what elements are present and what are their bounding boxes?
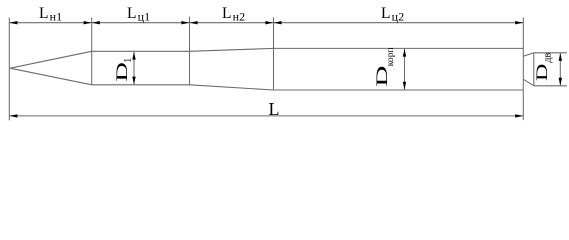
wire nozzle flare top	[523, 53, 534, 56]
wire nose cone top	[10, 51, 92, 68]
junction line cyl1/taper	[189, 17, 191, 86]
wire nozzle bottom	[534, 85, 567, 87]
svg-text:Lц1: Lц1	[127, 5, 150, 23]
wire cylinder1 top	[92, 50, 190, 52]
arrowheads Dkorp	[403, 49, 406, 57]
arrowhead bottom-left	[10, 114, 18, 117]
svg-text:1: 1	[123, 58, 134, 63]
svg-text:L: L	[269, 99, 280, 119]
wire main body top	[274, 47, 524, 49]
svg-text:корп: корп	[385, 47, 396, 66]
arrowheads at cyl1 end	[181, 21, 189, 24]
extension line left (node A)	[8, 18, 10, 121]
svg-text:D: D	[534, 64, 551, 82]
top dimension line	[9, 22, 523, 24]
dimension line D1	[133, 52, 135, 85]
extension line taper/main	[273, 18, 275, 91]
arrowheads D1	[132, 52, 135, 60]
wire taper top	[190, 48, 274, 51]
arrowhead top-right	[515, 21, 523, 24]
wire main body bottom	[274, 89, 524, 91]
svg-text:D: D	[373, 66, 391, 87]
dimension line Dkorp	[404, 49, 406, 90]
arrowheads at cone base	[84, 21, 92, 24]
bottom dimension line	[9, 115, 523, 117]
arrowhead top-left	[10, 21, 18, 24]
svg-text:дв: дв	[542, 53, 553, 63]
wire nose cone bottom	[10, 68, 92, 85]
wire cylinder1 bottom	[92, 84, 190, 86]
arrowheads at taper end	[265, 21, 273, 24]
svg-text:Lн2: Lн2	[222, 5, 245, 23]
wire nozzle flare bottom	[523, 79, 534, 86]
extension line main end	[522, 18, 524, 121]
arrowhead bottom-right	[515, 114, 523, 117]
extension line cone base	[91, 18, 93, 85]
wire nozzle left face	[533, 53, 535, 86]
svg-text:D: D	[113, 62, 131, 82]
svg-text:Lн1: Lн1	[39, 5, 62, 23]
arrowheads Ddv	[559, 53, 562, 61]
wire nozzle top	[534, 52, 567, 54]
svg-text:Lц2: Lц2	[381, 5, 404, 23]
dimension line Ddv	[559, 53, 561, 85]
wire taper bottom	[190, 85, 274, 90]
